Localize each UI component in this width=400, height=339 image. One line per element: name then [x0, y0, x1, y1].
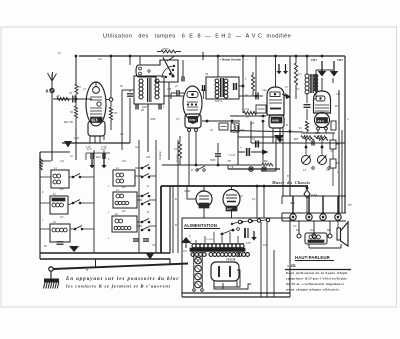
svg-text:CH1: CH1 [311, 58, 317, 62]
IF transformer MF1 can [134, 76, 164, 104]
handwriting line 2 [66, 284, 171, 289]
hp wires [282, 196, 346, 248]
psu transformer top leads [196, 232, 238, 243]
coil box L6 [112, 213, 137, 232]
svg-text:x: x [107, 185, 110, 188]
choke CH arrows [311, 58, 343, 76]
capacitor C10 pair [252, 137, 258, 148]
resistor box RB5 [330, 159, 339, 168]
switch S3 [72, 200, 81, 204]
svg-text:T.2: T.2 [303, 169, 307, 172]
handwriting line 1 [65, 277, 180, 282]
resistor R13 [314, 132, 327, 138]
switch contacts mid [196, 166, 205, 171]
capacitor C1 [73, 96, 75, 103]
avc arrow [282, 93, 291, 99]
tuner block frame [40, 152, 170, 259]
svg-text:C: C [108, 158, 110, 161]
wire v3 top [274, 55, 276, 87]
svg-text:50: 50 [114, 111, 118, 115]
wire x178 [177, 140, 179, 186]
chassis ground hatch [44, 279, 59, 289]
label haute tension [203, 52, 248, 62]
masse line fuse [228, 165, 280, 171]
svg-text:OC: OC [60, 216, 64, 219]
svg-text:En appuyant sur les poussoirs: En appuyant sur les poussoirs du bloc [65, 277, 180, 282]
capacitor C9 pair [228, 146, 269, 157]
wire switch drop [168, 82, 170, 160]
capacitor C4 [171, 90, 184, 96]
left frame resistor [40, 158, 43, 170]
svg-text:BP: BP [327, 229, 331, 232]
diamond node [304, 186, 318, 213]
trimmer cluster [86, 148, 110, 168]
label std58 [226, 258, 236, 262]
pot P1 [302, 154, 312, 165]
psu switch [221, 228, 240, 235]
svg-text:Rés.750: Rés.750 [63, 121, 74, 124]
svg-text:Cd: Cd [152, 244, 156, 247]
svg-text:Pad: Pad [95, 156, 101, 159]
svg-text:x: x [107, 237, 110, 240]
svg-text:PO: PO [59, 188, 64, 191]
capacitor C7 [312, 141, 314, 146]
wire avc row [202, 120, 240, 122]
svg-text:0,5: 0,5 [120, 133, 124, 136]
label masse du chassis [271, 180, 310, 185]
tube V2 envelope [183, 86, 202, 128]
svg-text:250: 250 [167, 88, 172, 91]
svg-text:T: T [245, 78, 247, 81]
antenna [48, 72, 57, 89]
masse bus thick [161, 186, 308, 253]
coil box L4 [113, 167, 135, 186]
switch S7 [141, 219, 150, 231]
MF2 core [221, 78, 224, 97]
svg-text:6,3V: 6,3V [246, 242, 251, 245]
wire v1 base drop [129, 103, 131, 143]
svg-text:K: K [146, 185, 149, 188]
svg-text:50: 50 [285, 86, 288, 89]
pot P2 [318, 154, 328, 165]
cav vertical label [175, 154, 179, 162]
tube V4 grid rows [315, 105, 329, 111]
svg-text:c: c [42, 219, 44, 222]
svg-text:K: K [190, 169, 193, 172]
IF transformer MF2 can [206, 77, 239, 99]
hp text 1 [286, 271, 349, 275]
svg-text:B: B [147, 211, 149, 214]
psu bottom wires [182, 281, 290, 293]
psu wires right [261, 222, 274, 297]
svg-text:3: 3 [163, 106, 165, 109]
wire x256 top [255, 56, 257, 97]
svg-text:110: 110 [188, 240, 192, 243]
switch unit S1 box [136, 60, 178, 82]
svg-text:0PR: 0PR [290, 202, 295, 205]
tube V3 label [271, 117, 282, 123]
resistor R8 [304, 135, 314, 140]
svg-text:Pour utilisation de la haute t: Pour utilisation de la haute téléph. [286, 271, 349, 275]
svg-text:4V: 4V [301, 132, 304, 135]
tube V1 envelope [86, 82, 106, 136]
wire V2 left [170, 93, 172, 99]
v5 v6 wires [187, 186, 232, 218]
MF1 primary coil [139, 79, 143, 99]
svg-text:2×350: 2×350 [206, 238, 213, 241]
svg-text:4V: 4V [56, 94, 61, 98]
svg-text:EL3: EL3 [318, 119, 325, 123]
psu up arrow [181, 237, 191, 248]
coil box L2 [50, 193, 68, 214]
resistor R9 [317, 135, 328, 140]
node R (antenna terminal) [46, 88, 55, 93]
svg-text:T2: T2 [299, 127, 302, 130]
svg-text:les contacts K se ferment et B: les contacts K se ferment et B s’ouvrent [66, 284, 171, 289]
tube V4 pins [317, 127, 328, 133]
wire mf2 to v3 [239, 85, 251, 96]
hp rule [285, 269, 351, 271]
resistor R10 [174, 136, 182, 165]
svg-text:4T: 4T [70, 155, 73, 158]
capacitor C12 [133, 239, 149, 241]
wire antenna to grid [53, 98, 92, 100]
svg-text:x: x [107, 211, 110, 214]
svg-text:K: K [174, 198, 177, 201]
svg-text:supprimer R25 par l’éléctrolit: supprimer R25 par l’éléctrolitique [285, 277, 347, 281]
grid cap node [106, 56, 113, 101]
svg-text:0,5: 0,5 [296, 88, 300, 91]
svg-text:0,1: 0,1 [245, 94, 249, 97]
pot wires [303, 139, 330, 172]
svg-text:6M8: 6M8 [272, 119, 279, 123]
tube V6 [223, 190, 240, 212]
svg-text:PO: PO [121, 186, 126, 189]
svg-text:6E8: 6E8 [92, 119, 98, 123]
wire x243 [243, 56, 249, 113]
tuner left labels [42, 163, 44, 222]
wire v2 anode [201, 89, 206, 91]
title text [103, 34, 291, 40]
wire cav down [173, 186, 178, 253]
svg-text:2T: 2T [175, 85, 178, 88]
svg-text:CH: CH [336, 93, 341, 96]
tube V4 base [315, 113, 330, 128]
transformer primary [190, 244, 244, 248]
svg-text:de 50 m. s’alimentant impédanc: de 50 m. s’alimentant impédance [286, 282, 345, 286]
svg-text:B+: B+ [228, 160, 232, 163]
MF2 cap left [203, 85, 205, 99]
capacitor C6 [304, 99, 311, 120]
long vertical x122 [121, 99, 123, 150]
T3 core [310, 74, 313, 93]
psu arrow dn [251, 231, 257, 241]
svg-text:H: H [85, 269, 88, 272]
label 45 [69, 91, 73, 95]
resistor box RB1 [219, 123, 228, 130]
svg-text:6,3: 6,3 [252, 198, 256, 201]
svg-text:STD.58: STD.58 [226, 258, 236, 262]
tiny value labels [59, 78, 349, 247]
wire v4 top [316, 62, 333, 91]
psu box [182, 218, 290, 297]
tuner connect wires [40, 168, 156, 229]
top bus wire [79, 55, 345, 57]
svg-text:Volume: Volume [158, 151, 162, 161]
speaker [337, 222, 348, 246]
svg-text:B: B [286, 124, 288, 127]
wire bus to switch [130, 52, 184, 82]
switch S6 [141, 193, 150, 205]
resistor R7 [305, 121, 308, 133]
svg-text:8μF: 8μF [294, 138, 299, 141]
svg-text:GO: GO [122, 160, 126, 163]
label Res 750 [63, 121, 74, 124]
svg-text:110: 110 [183, 250, 187, 253]
tube V2 pins [188, 129, 198, 137]
tuner inner verticals [86, 150, 104, 165]
svg-text:ALIMENTATION: ALIMENTATION [184, 223, 217, 228]
svg-text:45: 45 [69, 91, 73, 95]
label MF1 [141, 105, 149, 109]
ground arrow tuner [69, 246, 79, 252]
svg-text:B: B [175, 224, 177, 227]
svg-text:+: + [240, 146, 242, 150]
svg-text:• Haute Tension →→: • Haute Tension →→ [220, 58, 248, 62]
svg-text:4V: 4V [240, 195, 243, 198]
transformer core [190, 248, 245, 251]
wire mid h1 [162, 164, 276, 167]
junction top [75, 86, 81, 100]
ground arrow V3 [274, 135, 284, 141]
tube V1 grids [90, 97, 102, 114]
svg-text:8Ω: 8Ω [264, 160, 267, 163]
capacitor C8 [215, 143, 221, 166]
svg-text:C9: C9 [205, 73, 209, 76]
wire antenna down [51, 93, 53, 162]
tube V1 anode circle [93, 82, 100, 93]
svg-text:100: 100 [240, 129, 245, 132]
svg-text:OC: OC [122, 210, 126, 213]
svg-text:0,5: 0,5 [176, 118, 180, 121]
tiny value labels 2 [44, 52, 351, 272]
psu label 2 [246, 242, 268, 247]
wire v3 base down [262, 120, 273, 165]
psu terminals [231, 218, 270, 225]
psu osc labels [188, 238, 213, 243]
coil box L1 [51, 167, 69, 188]
wire x283 vertical [282, 128, 284, 196]
hp ohms [287, 264, 296, 268]
ground arrow V1 [64, 141, 72, 148]
svg-text:Masse du Chassis: Masse du Chassis [271, 180, 310, 185]
svg-text:+ 0,25: + 0,25 [228, 154, 236, 157]
junction dots bus [75, 55, 323, 57]
svg-text:4: 4 [347, 118, 349, 121]
svg-text:CA: CA [98, 58, 102, 61]
resistor R12 [301, 132, 312, 138]
svg-text:HAUT-PARLEUR: HAUT-PARLEUR [295, 255, 331, 260]
svg-text:Cap: Cap [262, 89, 267, 92]
labels 12V 7.5V [86, 145, 108, 150]
svg-text:50: 50 [70, 110, 74, 114]
hp text 2 [285, 277, 347, 281]
tube V3 pins [273, 128, 280, 136]
svg-text:5000: 5000 [210, 159, 216, 162]
resistor R6 [251, 72, 254, 96]
svg-text:5000: 5000 [150, 118, 156, 121]
svg-text:Utilisation des lampes 6: Utilisation des lampes 6 E 8 — E H 2 — A… [103, 34, 291, 40]
resistor R2 vertical [70, 84, 78, 128]
resistor box RB3 [331, 121, 336, 130]
switch arm S1 [163, 57, 174, 78]
speaker wires [330, 196, 346, 244]
hp coil box [305, 233, 327, 244]
wire v2 pins down [189, 136, 197, 186]
tube V5 [196, 188, 212, 208]
AF transformer T3 coil R [314, 74, 318, 91]
svg-text:Fon: Fon [309, 229, 315, 232]
svg-text:EH2: EH2 [189, 118, 196, 122]
wire mf2 top [217, 56, 219, 77]
switch S5 [141, 165, 150, 178]
resistor box RB2 [231, 123, 239, 132]
svg-text:ment chaque plaque allécante.: ment chaque plaque allécante. [286, 288, 340, 292]
MF2 cap right [234, 83, 237, 90]
wire t3 down [307, 93, 316, 99]
coil box L3 [50, 221, 70, 242]
wire left drop [75, 56, 77, 84]
right wire3 [341, 130, 343, 213]
rectifier tube [211, 262, 240, 287]
svg-text:≈ 4Ω.: ≈ 4Ω. [287, 264, 296, 268]
svg-text:4700: 4700 [244, 109, 250, 112]
hp rail [282, 213, 346, 221]
tube V1 pins [90, 136, 104, 142]
V4 bottom wires [303, 133, 345, 143]
svg-text:R: R [46, 89, 49, 94]
label volume [158, 151, 162, 161]
ground bus node [49, 254, 188, 272]
resistor R11 [262, 160, 273, 166]
tube V4 label EL3 [317, 118, 328, 124]
hp sockets [290, 214, 341, 220]
tube V3 screen rect [270, 92, 280, 97]
wire antenna into block [41, 158, 51, 161]
tube V3 grid rows [269, 100, 282, 109]
right edge wire [344, 56, 346, 213]
tube V2 grid rows [187, 102, 198, 110]
feed arrows pair 2 [277, 64, 289, 74]
transformer sec 1 [191, 253, 206, 257]
svg-text:0,5: 0,5 [293, 225, 297, 228]
transformer sec 2 [209, 253, 239, 257]
electrolytic arrow [277, 133, 283, 143]
MF1 trim caps [136, 105, 161, 110]
T3 wires [307, 56, 333, 74]
svg-text:47: 47 [83, 88, 86, 91]
capacitor C2 [127, 90, 133, 103]
MF1 secondary coil [155, 79, 159, 99]
svg-text:SE: SE [44, 245, 47, 248]
svg-text:M.F.2: M.F.2 [214, 99, 222, 103]
svg-text:B+: B+ [335, 105, 339, 108]
hp terminals [297, 234, 332, 238]
resistor R3 vertical [109, 101, 117, 130]
hp text 4 [286, 288, 340, 292]
right small wires [332, 133, 334, 186]
MF2 primary coil [215, 79, 219, 98]
tuner v-wires [94, 140, 156, 253]
transformer sec 3 [238, 253, 249, 257]
wire psu feeds [256, 185, 265, 218]
svg-text:GO: GO [60, 160, 64, 163]
rounded wire box [238, 125, 276, 171]
long vertical x76 [62, 128, 76, 160]
svg-text:430: 430 [146, 156, 151, 159]
MF2 secondary coil [224, 79, 228, 98]
bus labels [184, 190, 213, 197]
resistor R4 top [161, 48, 176, 53]
tube V1 label 6E8 [91, 117, 103, 123]
wire x290 vertical [289, 56, 291, 196]
capacitor C5 [251, 93, 263, 100]
wire y143 right [251, 121, 303, 143]
tube V4 screen [316, 96, 325, 101]
coil box L5 [113, 189, 137, 208]
svg-text:Cath: Cath [74, 137, 80, 140]
tube V4 envelope [314, 91, 331, 113]
svg-text:20000: 20000 [162, 48, 169, 51]
psu cap C13 [245, 228, 248, 238]
svg-text:4B: 4B [141, 109, 144, 112]
tube V2 label EH2 [188, 116, 198, 124]
cathode junction wire [62, 142, 130, 144]
wire mf1 left [122, 90, 134, 99]
svg-text:30: 30 [120, 85, 123, 88]
resistor R14 [294, 56, 302, 99]
hp labels [295, 229, 331, 232]
psu title [184, 223, 220, 229]
svg-text:CH2: CH2 [337, 58, 343, 62]
capacitor C11 [57, 242, 64, 244]
resistor 4V [56, 94, 69, 101]
MF1 core [148, 78, 151, 102]
svg-text:TH: TH [348, 204, 351, 207]
AF transformer T3 coil L [305, 74, 309, 94]
svg-text:4-25: 4-25 [87, 148, 92, 151]
hp text 3 [286, 282, 345, 286]
svg-text:O.P.R.: O.P.R. [311, 194, 318, 197]
ground lead [50, 271, 52, 279]
wire v1 pins down [90, 142, 100, 143]
wire mf1 to V2 [148, 96, 183, 152]
svg-text:50: 50 [210, 129, 213, 132]
haut parleur title [295, 255, 334, 261]
switch S4 [74, 226, 83, 230]
tube V3 envelope [267, 87, 284, 128]
svg-text:b: b [42, 191, 44, 194]
lamp chain [193, 252, 204, 291]
right wire2 [338, 90, 340, 213]
svg-text:600: 600 [315, 132, 320, 135]
tube V2 top cap [187, 92, 198, 98]
switch S2 [72, 174, 81, 178]
label MF2 [214, 99, 222, 103]
resistor box RB4 [330, 140, 339, 149]
svg-text:0,1: 0,1 [58, 52, 62, 55]
hp socket drops [299, 221, 330, 234]
